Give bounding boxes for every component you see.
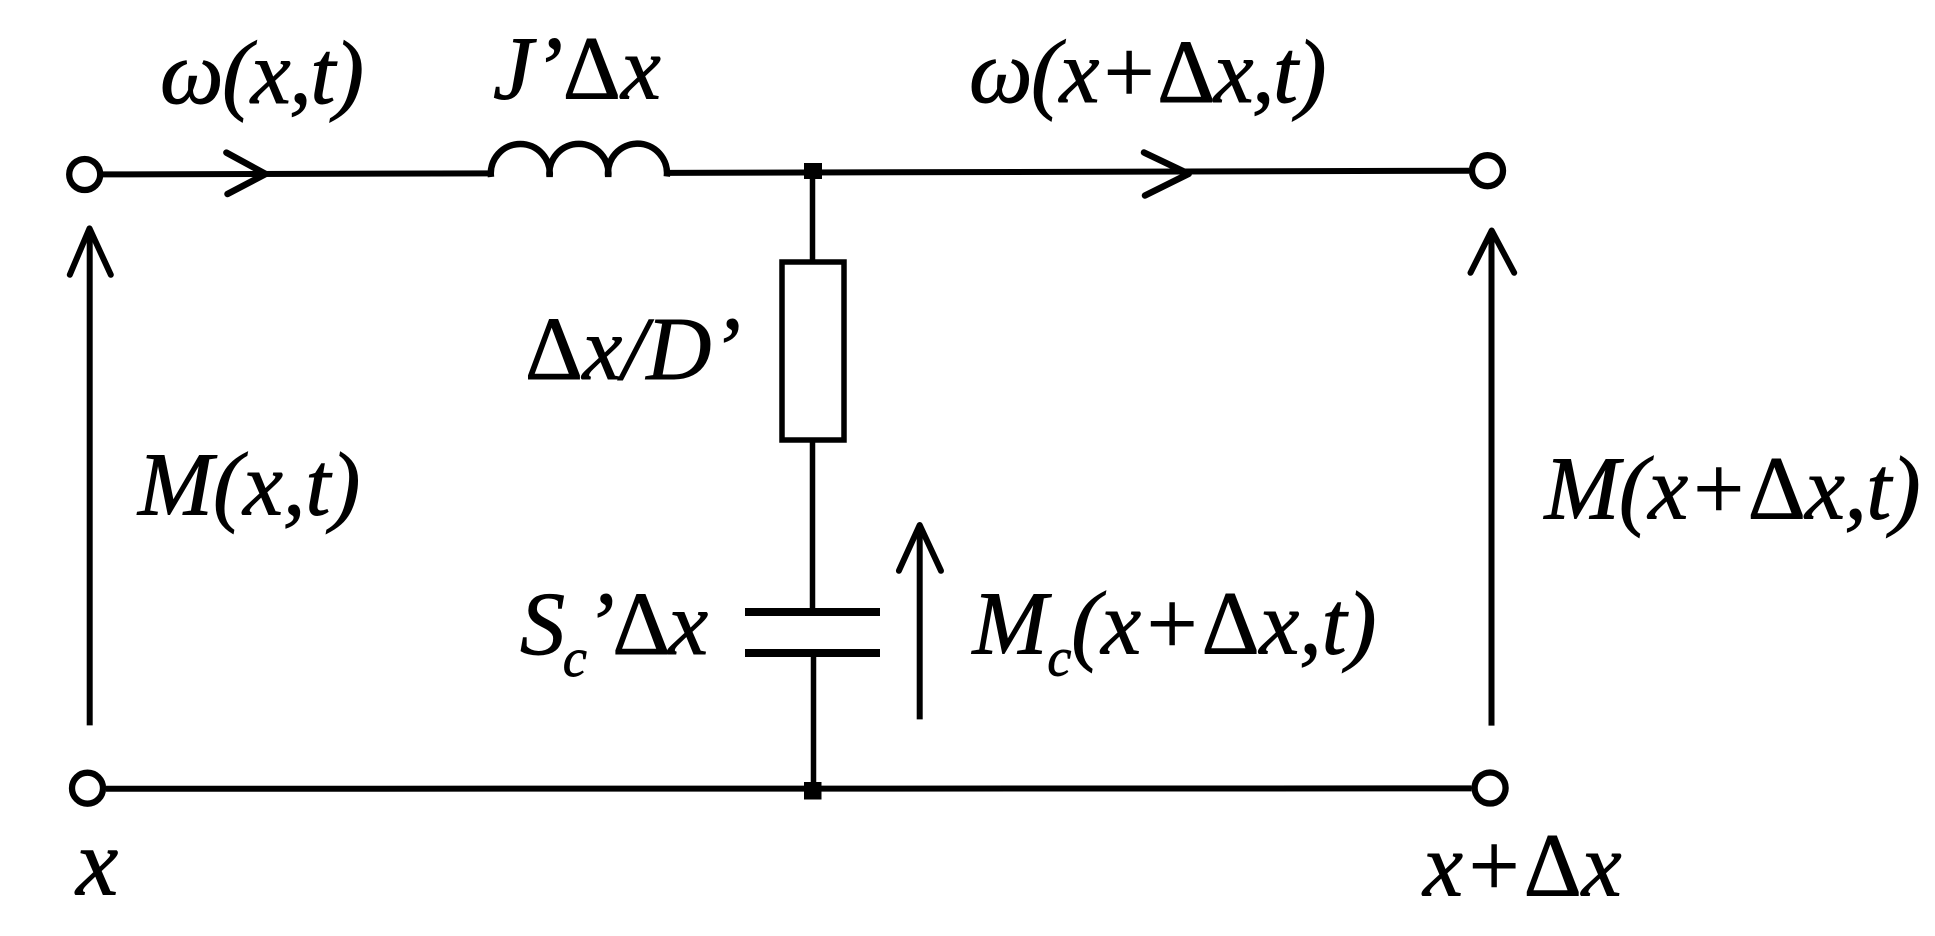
- wire bottom rail: [106, 785, 1472, 791]
- resistor dx/D' box: [782, 262, 844, 440]
- wire top-left segment: [103, 173, 492, 174]
- arrow M(x,t) left: [87, 232, 93, 725]
- inductor J'dx: [491, 144, 667, 177]
- terminal top-left: [69, 159, 100, 190]
- svg-text:x+Δx: x+Δx: [1421, 817, 1622, 916]
- svg-text:M(x+Δx,t): M(x+Δx,t): [1543, 440, 1921, 539]
- svg-text:Mc(x+Δx,t): Mc(x+Δx,t): [971, 575, 1377, 688]
- wire stem resistor to capacitor: [810, 440, 816, 612]
- arrow M(x+dx,t) right: [1489, 234, 1495, 726]
- capacitor Sc'dx top plate: [745, 608, 880, 616]
- svg-text:Δx/D’: Δx/D’: [525, 300, 740, 399]
- terminal bottom-right: [1475, 773, 1506, 804]
- svg-text:ω(x,t): ω(x,t): [160, 24, 363, 123]
- svg-text:J’Δx: J’Δx: [493, 20, 661, 119]
- arrow flow w(x+dx,t): [1144, 153, 1189, 196]
- terminal top-right: [1472, 155, 1503, 186]
- wire stem capacitor to bottom rail: [811, 653, 817, 790]
- svg-text:Sc’Δx: Sc’Δx: [520, 575, 708, 688]
- svg-text:x: x: [74, 810, 118, 916]
- svg-text:ω(x+Δx,t): ω(x+Δx,t): [969, 23, 1325, 122]
- junction node top: [804, 163, 822, 179]
- junction node bottom: [804, 782, 822, 800]
- svg-text:M(x,t): M(x,t): [136, 436, 360, 535]
- terminal bottom-left: [72, 773, 103, 804]
- arrow flow w(x,t): [226, 153, 265, 194]
- capacitor Sc'dx bottom plate: [745, 649, 880, 657]
- wire top-right segment: [669, 171, 1469, 173]
- arrow Mc shunt: [917, 529, 923, 719]
- wire stem junction to resistor: [810, 171, 816, 265]
